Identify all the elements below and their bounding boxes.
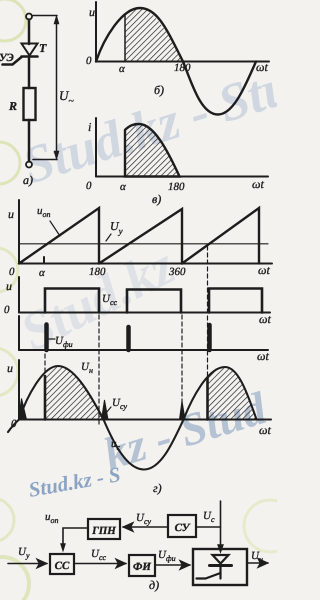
svg-text:СУ: СУ [175,522,191,534]
svg-text:ωt: ωt [259,312,271,326]
leader Ufi [49,338,55,340]
thyristor T [22,44,38,57]
dimension line U~ [54,16,59,160]
block SS [50,554,74,574]
sine wave b [96,8,256,115]
terminal bottom [26,162,32,168]
block thyristor [193,549,247,585]
svg-text:г): г) [153,481,162,495]
watermark circle left 1 [0,142,20,184]
hump 1 left edge [44,376,47,420]
svg-text:360: 360 [168,266,186,278]
svg-text:а): а) [23,173,33,187]
pulse 2 [127,290,181,313]
svg-text:R: R [8,99,17,113]
wire Uy input [8,563,47,565]
dashed line x182 [181,315,183,419]
svg-text:ωt: ωt [259,423,271,437]
spike 1 [44,325,49,351]
sync spike 180 [102,400,109,420]
watermark circle left 3 [0,348,18,396]
wire Ufi arrow [155,564,190,566]
svg-text:б): б) [154,83,164,97]
svg-text:д): д) [149,578,159,592]
wire Usu arrow [123,526,168,528]
wire Ucc arrow [74,563,126,565]
leader Uy [106,234,111,241]
axis horizontal b [96,61,269,63]
wire Un output [247,562,268,564]
hatch hump 1 [45,366,104,420]
watermark circle left 4 [0,498,14,542]
block GPN [88,519,120,539]
svg-text:u: u [6,279,12,293]
sine uc [8,366,257,470]
svg-text:УЭ: УЭ [0,52,14,64]
axis vertical b [95,2,97,62]
axis vertical cc [18,277,20,313]
watermark circle right (block diagram) [244,500,296,552]
watermark circle left 2 [0,248,18,292]
svg-text:u: u [89,5,95,19]
resistor R [24,88,36,120]
axis horizontal un [19,419,271,421]
alpha tick saw [43,257,45,264]
svg-text:0: 0 [86,55,92,67]
current hump [125,124,180,177]
svg-text:180: 180 [168,181,185,193]
svg-text:α: α [119,63,125,75]
svg-text:i: i [88,120,91,134]
block SU [168,515,196,537]
leader Usu [106,407,111,413]
axis vertical saw [18,200,20,264]
sync spike origin [19,399,27,420]
thyristor symbol in block [197,555,232,579]
svg-text:в): в) [152,192,161,206]
wire bottom [28,120,31,162]
sync spike 360 [180,401,186,420]
wire top [28,20,31,45]
wire u_op [63,528,88,547]
svg-text:u: u [8,207,14,221]
wire Uc tee to SU [196,526,221,528]
spike 3 [207,325,212,350]
svg-text:0: 0 [86,180,92,192]
svg-text:180: 180 [89,266,106,278]
block FI [129,555,155,576]
svg-text:0: 0 [4,304,10,316]
svg-text:T: T [39,41,47,55]
sawtooth ramp 2 [99,209,182,264]
hatch hump 2 [208,367,257,420]
hatch area b [125,8,183,62]
wire Uc vertical [220,501,222,547]
leader u_op [50,221,60,236]
gate wire УЭ [3,57,22,65]
Uy level line [19,243,268,245]
terminal top [26,14,32,20]
axis horizontal fi [19,349,268,351]
svg-text:ωt: ωt [258,263,270,277]
sawtooth ramp 1 [19,208,99,264]
svg-text:α: α [120,181,126,193]
pulse 3 [209,289,262,313]
svg-text:ФИ: ФИ [133,561,151,573]
svg-text:α: α [39,267,45,279]
spike 2 [126,327,131,350]
alpha line b [124,16,126,62]
svg-text:ωt: ωt [256,60,268,74]
axis horizontal cc [19,312,270,314]
hump 2 left edge [206,378,209,420]
axis vertical un [18,360,20,420]
svg-text:180: 180 [174,62,191,74]
svg-text:ωt: ωt [257,349,269,363]
axis horizontal saw [19,263,272,265]
svg-text:ωt: ωt [252,177,264,191]
svg-text:0: 0 [9,266,15,278]
wire mid [28,57,31,88]
dashed line x207 [207,246,209,377]
dashed line x45 [44,354,46,374]
svg-text:u: u [7,361,13,375]
axis vertical v [95,118,97,177]
sawtooth ramp 3 [182,208,259,264]
dashed line x99 [98,315,100,424]
axis vertical fi [18,316,20,350]
axis horizontal v [96,176,268,178]
watermark circle top-left [0,0,26,41]
watermark circle bottom-left [0,557,29,600]
svg-text:СС: СС [55,560,70,572]
tick bottom [33,159,57,161]
svg-text:ГПН: ГПН [91,525,116,537]
pulse 1 [45,289,99,313]
tick top [33,15,57,17]
